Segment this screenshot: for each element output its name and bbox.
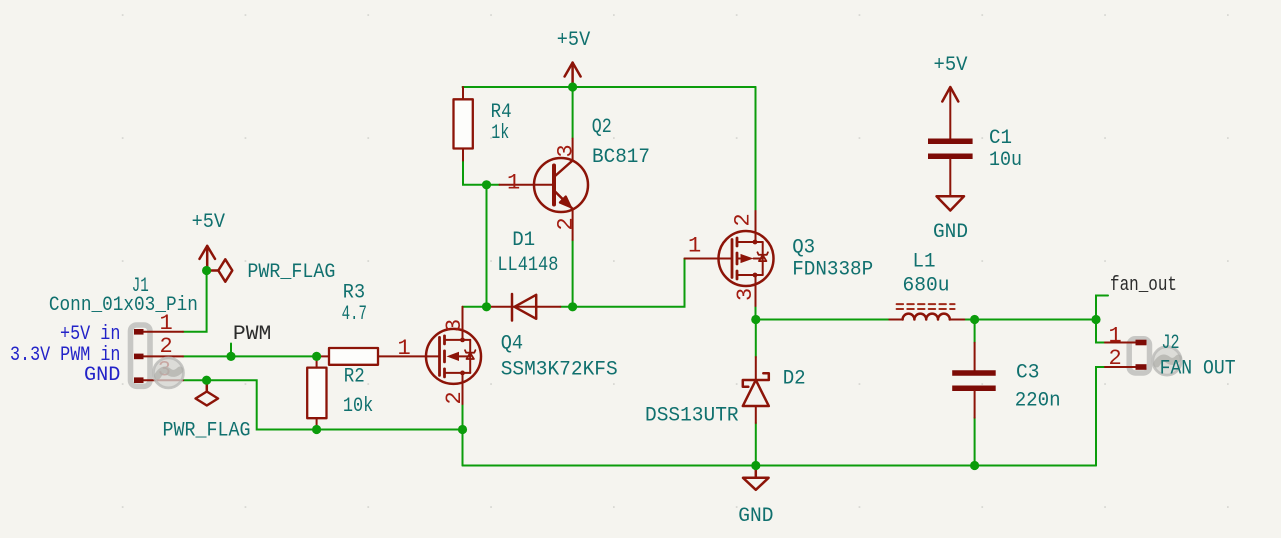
wire Q4 drain to D1 anode bbox=[463, 306, 487, 308]
junction Q2 base / R4 bbox=[482, 180, 491, 189]
J2 pin 2 bbox=[1105, 364, 1147, 370]
Q4 drain pin bbox=[462, 307, 464, 340]
svg-text:3: 3 bbox=[733, 288, 758, 301]
svg-text:DSS13UTR: DSS13UTR bbox=[645, 405, 739, 428]
svg-text:J2: J2 bbox=[1162, 332, 1180, 355]
wire bottom GND rail bbox=[463, 465, 1097, 467]
wire J1 pin3 GND run bbox=[183, 380, 463, 429]
wire output node to D2 cathode bbox=[755, 320, 757, 358]
ground (bottom) bbox=[743, 466, 769, 490]
junction Q3 drain / D2 / L1 bbox=[751, 315, 760, 324]
svg-text:10u: 10u bbox=[989, 149, 1022, 172]
svg-text:3: 3 bbox=[554, 144, 579, 157]
svg-text:680u: 680u bbox=[903, 275, 950, 298]
J2 pin 1 bbox=[1105, 340, 1147, 346]
wire Q2 emitter down bbox=[572, 240, 574, 307]
Q4 source pin bbox=[462, 373, 464, 404]
capacitor C3 bbox=[952, 343, 996, 418]
svg-text:SSM3K72KFS: SSM3K72KFS bbox=[501, 359, 618, 382]
junction +5V / PWR_FLAG bbox=[202, 266, 211, 275]
junction GND / PWR_FLAG 2 bbox=[202, 376, 211, 385]
junction D1 cathode / Q2 emitter bbox=[568, 302, 577, 311]
svg-text:4.7: 4.7 bbox=[342, 303, 367, 326]
svg-text:1: 1 bbox=[398, 336, 411, 361]
wire D2 anode to bottom rail bbox=[755, 423, 757, 466]
ground (C1) bbox=[937, 196, 965, 210]
wire J1 pin1 to +5V flag node bbox=[183, 271, 207, 332]
wire Q3 drain to output node bbox=[755, 306, 757, 320]
svg-text:GND: GND bbox=[738, 505, 773, 528]
svg-text:3: 3 bbox=[442, 319, 467, 332]
junction R2 bottom bbox=[312, 425, 321, 434]
capacitor C1 bbox=[928, 141, 973, 196]
svg-text:PWR_FLAG: PWR_FLAG bbox=[247, 261, 335, 284]
resistor R3 bbox=[319, 348, 379, 365]
wire L1 to C3 node and J2 node bbox=[964, 319, 1096, 321]
svg-text:Q2: Q2 bbox=[592, 116, 612, 139]
svg-text:10k: 10k bbox=[343, 395, 373, 418]
svg-text:GND: GND bbox=[933, 221, 968, 244]
junction D1 anode bbox=[482, 302, 491, 311]
wire fan_out label stub bbox=[1096, 296, 1108, 320]
junction fan_out node bbox=[1091, 315, 1100, 324]
wire C3 bottom to rail bbox=[974, 418, 976, 466]
wire R3 to Q4 gate (pin) bbox=[378, 355, 440, 357]
svg-text:Conn_01x03_Pin: Conn_01x03_Pin bbox=[49, 294, 198, 317]
power symbol +5V (top) bbox=[565, 63, 581, 88]
power symbol +5V (J1) bbox=[200, 246, 216, 271]
Q3 bottom pin bbox=[755, 275, 757, 306]
wire +5V top rail bbox=[463, 86, 756, 88]
J1 pin 2 bbox=[134, 354, 183, 360]
wire J1 pin2 to R3 bbox=[183, 355, 319, 357]
svg-text:C1: C1 bbox=[989, 127, 1012, 150]
svg-text:Q4: Q4 bbox=[501, 333, 523, 356]
wire C3 top bbox=[974, 320, 976, 343]
junction Q4 source / GND run bbox=[458, 425, 467, 434]
junction +5V top rail bbox=[568, 82, 577, 91]
J1 pin 3 bbox=[134, 377, 183, 383]
connector J1 body bbox=[131, 325, 151, 386]
svg-text:fan_out: fan_out bbox=[1110, 274, 1177, 297]
transistor Q3 bbox=[719, 231, 774, 286]
wire J2 pin2 to bottom rail bbox=[1096, 367, 1105, 466]
svg-text:2: 2 bbox=[1109, 346, 1122, 371]
svg-text:FDN338P: FDN338P bbox=[792, 259, 873, 282]
wire GND run drop to bottom rail bbox=[462, 430, 464, 466]
connector J2 body bbox=[1129, 339, 1149, 373]
wire Q4 source to GND run bbox=[462, 404, 464, 430]
svg-text:BC817: BC817 bbox=[592, 146, 650, 169]
diode D2 bbox=[743, 357, 769, 423]
svg-text:LL4148: LL4148 bbox=[497, 254, 558, 277]
Q3 gate pin bbox=[685, 258, 733, 260]
svg-text:1k: 1k bbox=[491, 122, 509, 145]
svg-text:D1: D1 bbox=[512, 229, 535, 252]
svg-text:+5V: +5V bbox=[192, 211, 226, 234]
svg-text:R2: R2 bbox=[344, 366, 365, 389]
wire Q2 collector to +5V rail bbox=[572, 87, 574, 139]
svg-text:PWR_FLAG: PWR_FLAG bbox=[163, 419, 251, 442]
junction PWM label bbox=[226, 352, 235, 361]
wire J2 pin1 bbox=[1096, 320, 1105, 343]
wire R4 bottom to Q2 base bbox=[463, 161, 500, 185]
diode D1 bbox=[487, 294, 561, 321]
svg-text:FAN OUT: FAN OUT bbox=[1160, 357, 1236, 380]
svg-text:1: 1 bbox=[688, 234, 701, 259]
J1 pin 1 bbox=[134, 329, 183, 335]
svg-text:D2: D2 bbox=[783, 368, 806, 391]
J1 simulation-excluded marker bbox=[153, 358, 183, 388]
svg-text:R4: R4 bbox=[491, 101, 512, 124]
Q3 top pin bbox=[755, 211, 757, 242]
junction C3 bottom rail bbox=[970, 461, 979, 470]
junction D2 / GND rail bbox=[751, 461, 760, 470]
svg-text:1: 1 bbox=[1109, 324, 1122, 349]
svg-text:+5V in: +5V in bbox=[60, 323, 120, 346]
junction R3/R2 node bbox=[312, 352, 321, 361]
J2 simulation-excluded marker bbox=[1153, 347, 1181, 375]
svg-text:2: 2 bbox=[442, 391, 467, 404]
svg-text:Q3: Q3 bbox=[792, 237, 815, 260]
wire Q3 source to +5V rail bbox=[755, 87, 757, 211]
wire output node to L1 bbox=[756, 319, 890, 321]
svg-text:2: 2 bbox=[554, 217, 579, 230]
PWR_FLAG 2 symbol bbox=[196, 380, 218, 405]
wire PWM label stub bbox=[230, 344, 232, 357]
svg-text:+5V: +5V bbox=[934, 54, 969, 77]
svg-text:GND: GND bbox=[84, 364, 120, 387]
svg-text:1: 1 bbox=[507, 171, 520, 196]
wire D1 cathode to emitter node bbox=[560, 306, 572, 308]
svg-text:C3: C3 bbox=[1016, 362, 1040, 385]
svg-text:R3: R3 bbox=[343, 282, 365, 305]
inductor L1 bbox=[889, 304, 964, 319]
transistor Q2 bbox=[500, 139, 589, 241]
svg-text:2: 2 bbox=[731, 213, 756, 226]
power symbol +5V (C1) bbox=[942, 87, 958, 139]
svg-text:2: 2 bbox=[160, 334, 173, 359]
junction L1 / C3 node bbox=[970, 315, 979, 324]
svg-text:+5V: +5V bbox=[557, 29, 591, 52]
svg-text:220n: 220n bbox=[1015, 390, 1061, 413]
transistor Q4 bbox=[426, 329, 481, 384]
PWR_FLAG 1 symbol bbox=[207, 259, 233, 281]
wire D1 node to Q3 gate bbox=[573, 259, 685, 307]
wire Q2 base node to D1 anode bbox=[486, 185, 488, 307]
resistor R4 bbox=[454, 87, 473, 161]
svg-text:L1: L1 bbox=[913, 250, 936, 273]
svg-text:PWM: PWM bbox=[233, 323, 271, 346]
resistor R2 bbox=[307, 356, 326, 429]
